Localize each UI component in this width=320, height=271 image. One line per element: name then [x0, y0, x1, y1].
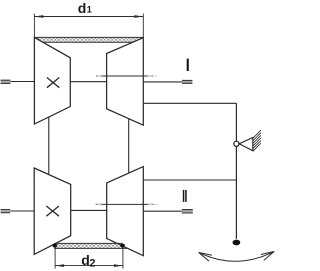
shaft II end symbol left: [1, 209, 11, 213]
swing arc with arrows: [199, 252, 274, 262]
dimension d1 line: [34, 16, 143, 18]
dimension d1 extension line left: [33, 14, 35, 38]
shaft I line right: [143, 81, 182, 83]
label II: [183, 190, 187, 202]
cone lower-right: [107, 167, 144, 256]
belt contact dot right: [120, 244, 125, 248]
cone upper-left: [34, 37, 70, 124]
shaft I line between cones: [70, 81, 106, 83]
dimension d2 extension line left: [54, 248, 56, 269]
svg-text:d: d: [78, 0, 87, 16]
label I: [187, 59, 189, 71]
pivot circle: [234, 141, 239, 146]
shaft I input line left: [10, 81, 34, 83]
belt contact dot left: [53, 244, 58, 248]
axial travel line of upper right cone: [96, 75, 157, 78]
bearing cross lower: [46, 206, 59, 216]
cone upper-right: [107, 38, 144, 126]
svg-text:1: 1: [87, 5, 92, 15]
frame tie right between cone pairs: [128, 118, 130, 173]
dimension d1 arrow left: [34, 15, 43, 18]
frame tie left between cone pairs: [48, 117, 50, 175]
dimension d2 arrow right: [114, 264, 123, 267]
dimension d1 extension line right: [142, 14, 144, 38]
belt strip top (position d1): [34, 37, 143, 42]
shaft I end symbol left: [1, 80, 11, 84]
axial travel line of lower right cone: [96, 203, 158, 206]
belt strip bottom (position d2): [54, 243, 127, 248]
dimension d2 arrow left: [55, 264, 64, 267]
shaft II line right: [143, 210, 182, 212]
link rod lower cone to lever: [143, 179, 236, 181]
shaft II end symbol right: [182, 209, 193, 213]
svg-text:2: 2: [89, 258, 95, 270]
shaft I end symbol right: [182, 80, 192, 84]
support hatching: [253, 130, 261, 151]
lever end mass dot: [233, 240, 241, 246]
shaft II line between cones: [71, 209, 107, 211]
dimension d1 arrow right: [134, 15, 143, 18]
bearing cross upper: [47, 78, 59, 88]
link rod upper cone to lever: [143, 102, 236, 104]
shaft II input line left: [10, 210, 34, 212]
cone lower-left: [34, 168, 70, 254]
lever arm vertical: [235, 103, 237, 239]
dimension d2 extension line right: [122, 248, 124, 269]
dimension d2 line: [55, 265, 123, 267]
pivot support triangle: [239, 138, 253, 151]
